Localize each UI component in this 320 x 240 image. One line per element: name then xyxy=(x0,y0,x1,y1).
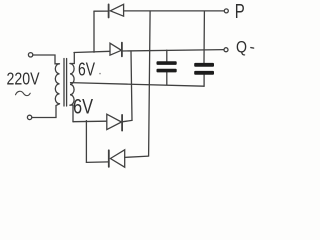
svg-text:6V: 6V xyxy=(78,58,95,79)
svg-text:P: P xyxy=(235,0,245,23)
svg-text:6V: 6V xyxy=(73,96,93,119)
svg-text:Q: Q xyxy=(236,39,247,57)
svg-text:220V: 220V xyxy=(7,69,40,89)
